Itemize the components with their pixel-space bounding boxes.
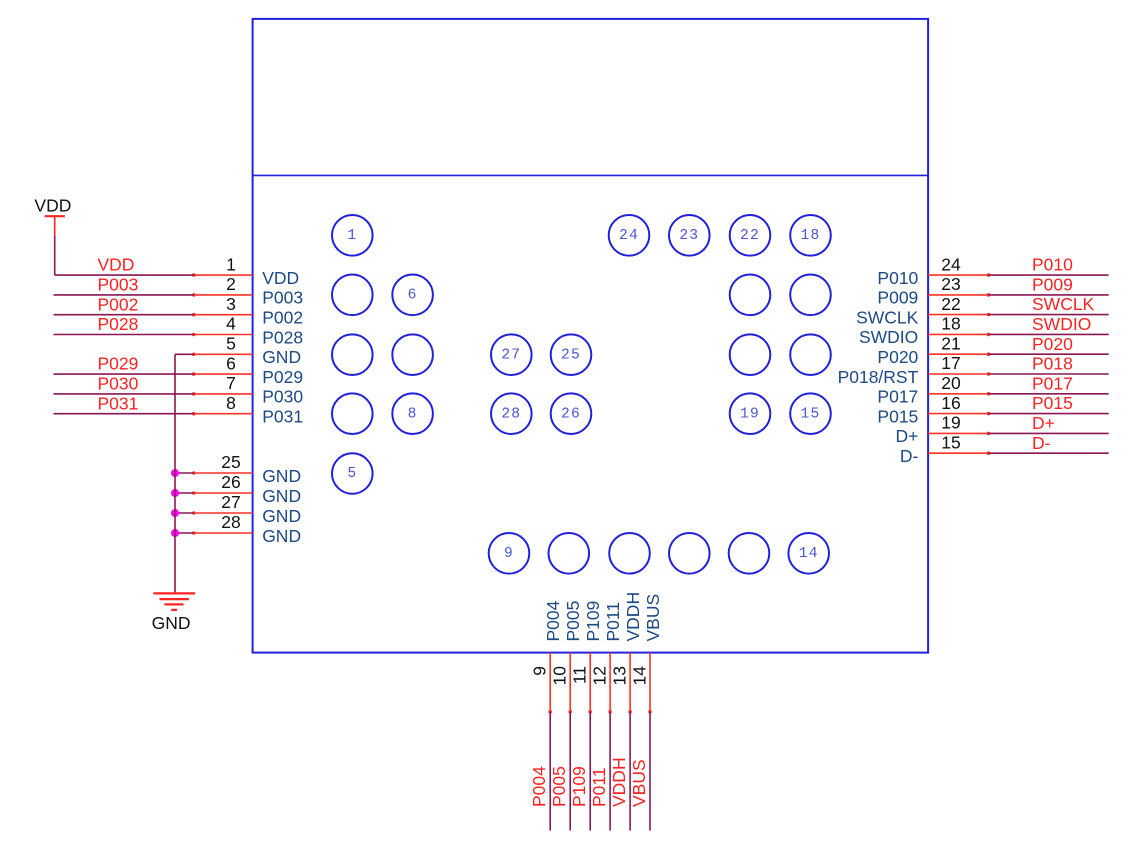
svg-text:12: 12 (590, 666, 610, 685)
pin 27 (GND) red pin line (194, 512, 253, 514)
svg-text:GND: GND (262, 347, 301, 367)
pin 16 endpoint dot (987, 412, 991, 416)
svg-text:19: 19 (740, 406, 760, 422)
pin 16 (P015) red pin line right (928, 413, 988, 415)
svg-text:P029: P029 (98, 354, 139, 374)
svg-text:P011: P011 (589, 767, 609, 807)
pin 28 endpoint dot (192, 531, 196, 535)
svg-text:P009: P009 (1032, 275, 1073, 295)
power symbol VDD (45, 216, 65, 235)
pin 10 endpoint dot (568, 710, 572, 714)
pin 11 (P109) red pin line bottom (589, 653, 591, 712)
svg-text:VDDH: VDDH (609, 757, 629, 807)
pin 12 (P011) red pin line bottom (609, 653, 611, 712)
wire net P030 to pin 7 (54, 393, 194, 395)
svg-text:22: 22 (941, 294, 960, 314)
svg-text:D+: D+ (895, 426, 918, 446)
svg-text:8: 8 (226, 393, 236, 413)
svg-text:P031: P031 (98, 393, 139, 413)
pin 19 endpoint dot (987, 432, 991, 436)
svg-text:18: 18 (801, 228, 821, 244)
svg-text:SWCLK: SWCLK (1032, 294, 1095, 314)
pin 21 (P020) red pin line right (928, 353, 988, 355)
wire net P015 from pin 16 (989, 413, 1109, 415)
svg-text:VDDH: VDDH (623, 592, 643, 642)
svg-text:P015: P015 (877, 406, 918, 426)
pin 17 endpoint dot (987, 372, 991, 376)
pad circle bottom col4 (669, 533, 710, 574)
pad circle 14 (788, 533, 829, 574)
svg-text:4: 4 (226, 314, 236, 334)
svg-text:P015: P015 (1032, 393, 1073, 413)
pin 24 (P010) red pin line right (928, 274, 988, 276)
wire VDD net horizontal to pin 1 (55, 274, 194, 276)
svg-text:15: 15 (941, 432, 960, 452)
pin 15 endpoint dot (987, 451, 991, 455)
svg-text:7: 7 (226, 373, 236, 393)
pin 13 (VDDH) red pin line bottom (629, 653, 631, 712)
svg-text:P109: P109 (583, 601, 603, 642)
svg-text:P028: P028 (98, 314, 139, 334)
svg-text:GND: GND (262, 486, 301, 506)
svg-text:P005: P005 (563, 601, 583, 642)
svg-text:GND: GND (152, 613, 191, 633)
pin 24 endpoint dot (987, 273, 991, 277)
svg-text:20: 20 (941, 373, 961, 393)
pad circle row3 col2 (392, 334, 433, 375)
pin 26 (GND) red pin line (194, 492, 253, 494)
svg-text:P017: P017 (1032, 373, 1073, 393)
pad circle bottom col2 (549, 533, 590, 574)
svg-text:P005: P005 (549, 766, 569, 807)
pin 15 (D-) red pin line right (928, 452, 988, 454)
pin 20 endpoint dot (987, 392, 991, 396)
svg-text:5: 5 (226, 334, 236, 354)
pin 3 endpoint dot (192, 313, 196, 317)
wire net P018 from pin 17 (989, 373, 1109, 375)
IC U1 internal divider line (253, 174, 929, 176)
wire net VDDH from pin 13 (629, 712, 631, 831)
svg-text:1: 1 (347, 228, 357, 244)
wire pin 5 to GND rail (175, 353, 194, 355)
junction dot GND rail pin 26 (171, 489, 179, 497)
wire net P020 from pin 21 (989, 353, 1109, 355)
pin 14 (VBUS) red pin line bottom (649, 653, 651, 712)
pin 11 endpoint dot (588, 710, 592, 714)
svg-text:GND: GND (262, 466, 301, 486)
pin 6 (P029) red pin line (194, 373, 253, 375)
svg-text:22: 22 (740, 228, 760, 244)
pin 21 endpoint dot (987, 352, 991, 356)
svg-text:VDD: VDD (98, 255, 135, 275)
pad circle bottom col5 (729, 533, 770, 574)
pin 4 endpoint dot (192, 333, 196, 337)
svg-text:21: 21 (941, 333, 960, 353)
pad circle 5 (332, 453, 373, 494)
svg-text:P003: P003 (98, 275, 139, 295)
svg-text:19: 19 (941, 413, 960, 433)
svg-text:P030: P030 (98, 374, 139, 394)
pad circle row3 col7 (730, 334, 771, 375)
svg-text:1: 1 (226, 254, 236, 274)
svg-text:P017: P017 (877, 387, 918, 407)
pad circle 26 (551, 393, 592, 434)
wire VDD vertical from symbol (54, 235, 56, 275)
svg-text:D-: D- (1032, 433, 1051, 453)
svg-text:GND: GND (262, 506, 301, 526)
pin 22 (SWCLK) red pin line right (928, 314, 988, 316)
svg-text:P031: P031 (262, 407, 303, 427)
svg-text:GND: GND (262, 526, 301, 546)
svg-text:27: 27 (221, 492, 240, 512)
svg-text:13: 13 (610, 666, 630, 685)
pad circle 28 (491, 393, 532, 434)
svg-text:10: 10 (550, 666, 570, 686)
svg-text:D+: D+ (1032, 413, 1055, 433)
pad circle 25 (551, 334, 592, 375)
svg-text:6: 6 (226, 353, 236, 373)
wire net P003 to pin 2 (54, 294, 194, 296)
pad circle 9 (489, 533, 530, 574)
svg-text:6: 6 (408, 287, 418, 303)
pin 6 endpoint dot (192, 372, 196, 376)
pin 25 (GND) red pin line (194, 472, 253, 474)
svg-text:P030: P030 (262, 387, 303, 407)
svg-text:18: 18 (941, 314, 960, 334)
svg-text:VDD: VDD (34, 196, 71, 216)
pin 23 (P009) red pin line right (928, 294, 988, 296)
pin 18 endpoint dot (987, 333, 991, 337)
wire net P031 to pin 8 (54, 413, 194, 415)
svg-text:26: 26 (221, 472, 240, 492)
svg-text:8: 8 (408, 406, 418, 422)
wire GND rail to pin 27 (175, 512, 194, 514)
pin 3 (P002) red pin line (194, 314, 253, 316)
pin 14 endpoint dot (648, 710, 652, 714)
svg-text:P009: P009 (877, 288, 918, 308)
svg-text:VBUS: VBUS (629, 759, 649, 807)
svg-text:P029: P029 (262, 367, 303, 387)
svg-text:SWDIO: SWDIO (1032, 314, 1091, 334)
pad circle 22 (730, 215, 771, 256)
pin 20 (P017) red pin line right (928, 393, 988, 395)
pad circle 23 (669, 215, 710, 256)
pin 12 endpoint dot (608, 710, 612, 714)
svg-text:9: 9 (530, 666, 550, 676)
svg-text:P018/RST: P018/RST (838, 367, 919, 387)
pin 9 endpoint dot (548, 710, 552, 714)
svg-text:VDD: VDD (262, 268, 299, 288)
pad circle row2 col1 (332, 275, 373, 316)
wire net SWDIO from pin 18 (989, 333, 1109, 335)
svg-text:P010: P010 (1032, 255, 1073, 275)
wire net D- from pin 15 (989, 452, 1109, 454)
pad circle row3 col8 (790, 334, 831, 375)
wire net P004 from pin 9 (549, 712, 551, 831)
pad circle 1 (332, 215, 373, 256)
svg-text:P020: P020 (1032, 334, 1073, 354)
pin 22 endpoint dot (987, 313, 991, 317)
svg-text:D-: D- (900, 446, 919, 466)
svg-text:P018: P018 (1032, 354, 1073, 374)
svg-text:9: 9 (504, 546, 514, 562)
wire net P002 to pin 3 (54, 314, 194, 316)
junction dot GND rail pin 27 (171, 509, 179, 517)
svg-text:27: 27 (501, 347, 521, 363)
svg-text:11: 11 (570, 666, 590, 684)
svg-text:P004: P004 (543, 600, 563, 641)
svg-text:28: 28 (501, 406, 521, 422)
wire net SWCLK from pin 22 (989, 314, 1109, 316)
svg-text:2: 2 (226, 274, 236, 294)
pin 26 endpoint dot (192, 491, 196, 495)
wire net D+ from pin 19 (989, 432, 1109, 434)
svg-text:24: 24 (941, 254, 961, 274)
svg-text:SWDIO: SWDIO (859, 327, 918, 347)
pin 7 endpoint dot (192, 392, 196, 396)
pin 5 endpoint dot (192, 353, 196, 357)
svg-text:23: 23 (941, 274, 960, 294)
pad circle 19 (730, 393, 771, 434)
wire net P009 from pin 23 (989, 294, 1109, 296)
pin 19 (D+) red pin line right (928, 432, 988, 434)
wire net P028 to pin 4 (54, 334, 194, 336)
wire net P005 from pin 10 (569, 712, 571, 831)
svg-text:P004: P004 (529, 766, 549, 807)
svg-text:14: 14 (630, 666, 650, 686)
wire GND rail to pin 25 (175, 472, 194, 474)
pin 28 (GND) red pin line (194, 532, 253, 534)
pin 10 (P005) red pin line bottom (569, 653, 571, 712)
pin 5 (GND) red pin line (194, 353, 253, 355)
svg-text:16: 16 (941, 393, 960, 413)
svg-text:25: 25 (221, 452, 240, 472)
svg-text:VBUS: VBUS (643, 594, 663, 642)
pad circle 15 (790, 393, 831, 434)
pad circle 18 (790, 215, 831, 256)
pin 1 (VDD) red pin line (194, 274, 253, 276)
svg-text:14: 14 (799, 546, 819, 562)
pin 1 endpoint dot (192, 273, 196, 277)
pin 25 endpoint dot (192, 471, 196, 475)
pin 2 endpoint dot (192, 293, 196, 297)
svg-text:3: 3 (226, 294, 236, 314)
wire net P029 to pin 6 (54, 373, 194, 375)
pad circle row4 col1 (332, 393, 373, 434)
svg-text:23: 23 (679, 228, 699, 244)
ground symbol GND (153, 593, 195, 610)
pin 8 endpoint dot (192, 412, 196, 416)
wire net VBUS from pin 14 (649, 712, 651, 831)
wire GND rail to pin 28 (175, 532, 194, 534)
pin 23 endpoint dot (987, 293, 991, 297)
pin 2 (P003) red pin line (194, 294, 253, 296)
pad circle 24 (609, 215, 650, 256)
pin 18 (SWDIO) red pin line right (928, 333, 988, 335)
pin 7 (P030) red pin line (194, 393, 253, 395)
svg-text:25: 25 (561, 347, 581, 363)
IC U1 body outline (253, 19, 929, 653)
pad circle row2 col8 (790, 275, 831, 316)
pin 17 (P018/RST) red pin line right (928, 373, 988, 375)
pad circle 6 (392, 275, 433, 316)
svg-text:P109: P109 (569, 766, 589, 807)
svg-text:SWCLK: SWCLK (856, 307, 919, 327)
svg-text:17: 17 (941, 353, 960, 373)
wire net P010 from pin 24 (989, 274, 1109, 276)
svg-text:P011: P011 (603, 602, 623, 642)
junction dot GND rail pin 28 (171, 529, 179, 537)
svg-text:P020: P020 (877, 347, 918, 367)
svg-text:P010: P010 (877, 268, 918, 288)
pad circle bottom col3 (609, 533, 650, 574)
wire net P109 from pin 11 (589, 712, 591, 831)
junction dot GND rail pin 25 (171, 469, 179, 477)
wire GND rail to pin 26 (175, 492, 194, 494)
wire net P017 from pin 20 (989, 393, 1109, 395)
wire net P011 from pin 12 (609, 712, 611, 831)
svg-text:5: 5 (347, 466, 357, 482)
pad circle 8 (392, 393, 433, 434)
pad circle row3 col1 (332, 334, 373, 375)
svg-text:28: 28 (221, 512, 240, 532)
pad circle row2 col7 (730, 275, 771, 316)
pin 13 endpoint dot (628, 710, 632, 714)
wire GND vertical rail (174, 354, 176, 593)
svg-text:15: 15 (801, 406, 821, 422)
svg-text:24: 24 (619, 228, 639, 244)
pin 27 endpoint dot (192, 511, 196, 515)
pin 8 (P031) red pin line (194, 413, 253, 415)
svg-text:P002: P002 (98, 294, 139, 314)
svg-text:P002: P002 (262, 308, 303, 328)
svg-text:26: 26 (561, 406, 581, 422)
pin 4 (P028) red pin line (194, 334, 253, 336)
svg-text:P028: P028 (262, 327, 303, 347)
pin 9 (P004) red pin line bottom (549, 653, 551, 712)
pad circle 27 (491, 334, 532, 375)
svg-text:P003: P003 (262, 288, 303, 308)
